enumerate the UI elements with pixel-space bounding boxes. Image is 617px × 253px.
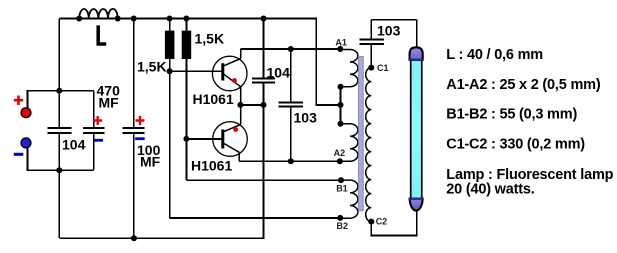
svg-text:B1: B1 <box>336 183 348 193</box>
transformer winding C1-C2 <box>366 63 389 227</box>
node A1 line / cap103 top <box>288 46 294 52</box>
svg-text:1,5K: 1,5K <box>137 59 167 75</box>
svg-text:MF: MF <box>140 153 161 169</box>
wire R1 to Q1 base <box>170 70 222 72</box>
transistor Q1 H1061 <box>193 49 248 107</box>
node center tap junction <box>338 102 344 108</box>
svg-text:H1061: H1061 <box>191 157 232 173</box>
transformer winding B1-B2 <box>336 177 358 231</box>
wire bottom rail <box>59 105 263 238</box>
wire top rail <box>59 19 340 105</box>
svg-text:104: 104 <box>62 137 86 153</box>
wire A2 <box>239 160 340 162</box>
wire lamp bottom to C2 <box>371 211 416 236</box>
svg-text:Lamp : Fluorescent lamp: Lamp : Fluorescent lamp <box>446 167 613 183</box>
capacitor 470 MF <box>83 83 120 171</box>
resistor R1 1,5K <box>137 16 174 218</box>
svg-text:MF: MF <box>99 94 120 110</box>
transformer winding A1-tap <box>335 38 358 90</box>
node Q1 emitter junction <box>237 102 243 108</box>
node 100MF top <box>131 16 137 22</box>
wire Q1 collector to A1 <box>241 48 341 50</box>
capacitor 103 top right <box>360 20 417 68</box>
transformer winding tap-A2 <box>334 121 358 165</box>
svg-text:B2: B2 <box>337 221 349 231</box>
wire center tap <box>340 87 342 124</box>
svg-text:B1-B2 : 55 (0,3 mm): B1-B2 : 55 (0,3 mm) <box>446 107 577 123</box>
svg-text:1,5K: 1,5K <box>195 30 225 46</box>
wire left column top <box>58 19 60 129</box>
lamp fluorescent tube <box>409 47 423 210</box>
text specs <box>446 47 613 198</box>
battery plus terminal <box>14 91 94 118</box>
svg-text:20 (40) watts.: 20 (40) watts. <box>446 182 534 198</box>
node cap104 bottom junction <box>261 102 267 108</box>
wire B2 <box>170 217 341 219</box>
svg-text:A1: A1 <box>335 38 347 48</box>
svg-text:C2: C2 <box>376 217 388 227</box>
resistor R2 1,5K <box>182 16 224 181</box>
capacitor 104 middle <box>252 19 290 105</box>
battery minus terminal <box>14 138 94 170</box>
capacitor 100 MF <box>123 19 161 239</box>
svg-text:L : 40 / 0,6 mm: L : 40 / 0,6 mm <box>446 47 543 63</box>
node minus junction <box>56 167 62 173</box>
transistor Q2 H1061 <box>191 105 247 173</box>
inductor L <box>76 9 121 44</box>
svg-text:103: 103 <box>294 110 318 126</box>
transformer core <box>359 57 364 211</box>
svg-text:A2: A2 <box>334 148 346 158</box>
node plus junction <box>56 88 62 94</box>
svg-text:H1061: H1061 <box>193 91 234 107</box>
wire left column bottom <box>58 133 60 238</box>
svg-text:C1: C1 <box>377 63 389 73</box>
svg-text:104: 104 <box>267 64 291 80</box>
node cap103 bottom / A2 line <box>288 158 294 164</box>
svg-text:A1-A2 : 25 x 2 (0,5 mm): A1-A2 : 25 x 2 (0,5 mm) <box>446 77 601 93</box>
wire R2 to Q2 base <box>186 138 221 140</box>
capacitor 104 left <box>47 128 85 152</box>
svg-text:C1-C2 : 330 (0,2 mm): C1-C2 : 330 (0,2 mm) <box>446 137 585 153</box>
node cap104 top rail <box>261 16 267 22</box>
node 100MF bottom <box>131 235 137 241</box>
wire emitter junction <box>241 104 264 106</box>
wire B1 <box>186 179 341 181</box>
svg-text:103: 103 <box>377 23 401 39</box>
capacitor 103 middle <box>278 49 317 161</box>
